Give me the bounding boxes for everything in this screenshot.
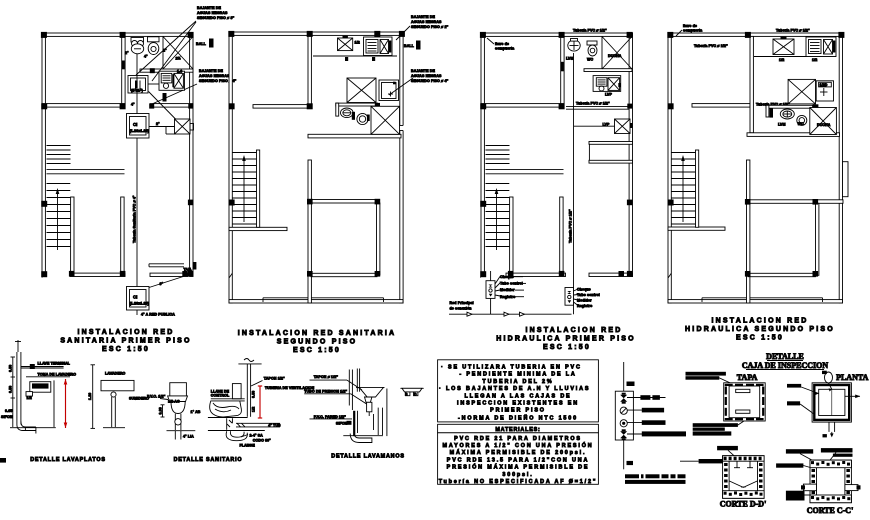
svg-text:CAJA DE INSPECCION: CAJA DE INSPECCION — [742, 361, 828, 370]
svg-text:1/2 AG: 1/2 AG — [168, 400, 180, 404]
corte cc left pipe — [801, 484, 817, 491]
wall mid horizontal plan4 — [692, 104, 750, 108]
front view sink lavamanos — [400, 388, 423, 396]
svg-text:compuerta: compuerta — [495, 47, 515, 51]
caja heading — [742, 352, 828, 370]
stairs wall plan4 — [696, 150, 699, 227]
red dim sanitario — [258, 386, 262, 418]
stairs landing lines plan3 — [486, 170, 564, 174]
toilet side view 1 sanitario — [168, 383, 188, 414]
svg-text:0.50: 0.50 — [252, 391, 256, 398]
wall top exterior plan2 — [229, 32, 403, 35]
wall room vertical plan4 — [816, 203, 819, 275]
wall bottom exterior plan4 — [668, 300, 843, 303]
wall right exterior plan4 — [839, 33, 842, 303]
svg-text:PVC RDE 13.5 PARA 1/2"CON UNA: PVC RDE 13.5 PARA 1/2"CON UNA — [447, 457, 589, 463]
svg-text:DETALLE LAVAMANOS: DETALLE LAVAMANOS — [331, 454, 405, 460]
pipe size labels plan1 — [125, 49, 181, 127]
wall stairwell vertical plan1 — [71, 197, 74, 273]
svg-text:Cheque: Cheque — [577, 288, 591, 292]
wc fixture plan3 — [587, 41, 597, 56]
svg-text:HIDRAULICA PRIMER PISO: HIDRAULICA PRIMER PISO — [496, 336, 636, 343]
sink unit LVP plan3 — [593, 76, 621, 97]
toilet fixture bath plan1 — [131, 38, 144, 54]
leader to mid wall plan1 — [152, 84, 197, 104]
column squares plan3 — [480, 32, 633, 277]
svg-text:BAJANTE DE: BAJANTE DE — [411, 69, 435, 73]
wall left exterior plan3 — [481, 33, 484, 277]
tuberia ventilacion label sanitario — [265, 386, 315, 390]
wall right exterior plan3 — [629, 33, 632, 277]
balcony inner line plan2 — [263, 298, 384, 302]
svg-text:DUCHA: DUCHA — [817, 123, 831, 127]
corte dd left leader — [680, 459, 734, 463]
svg-text:Tubería PVC ø 1/2": Tubería PVC ø 1/2" — [576, 101, 610, 105]
riser vertical line — [623, 362, 625, 469]
svg-text:2°: 2° — [156, 122, 160, 126]
svg-text:CORTE C-C': CORTE C-C' — [807, 506, 854, 515]
caja inspeccion CI-1 plan1 — [127, 114, 150, 139]
svg-text:1.20: 1.20 — [88, 393, 92, 400]
riser valve box — [615, 391, 633, 440]
kitchen stove X plan4 — [773, 37, 794, 55]
planta left leader bars — [787, 384, 801, 406]
svg-text:2½: 2½ — [176, 57, 181, 61]
svg-text:1° AB: 1° AB — [191, 410, 201, 414]
svg-text:B: B — [405, 392, 408, 396]
floor and dims lavamanos — [343, 389, 387, 437]
label sifon lavamanos — [336, 421, 352, 426]
svg-text:2°: 2° — [163, 49, 167, 53]
wall bottom plan1 segment A — [70, 273, 125, 276]
wall mid horizontal plan1 left — [42, 104, 125, 108]
caption detalle lavaplatos — [30, 457, 106, 463]
wall bottom exterior plan2 — [229, 300, 403, 303]
sifon X fixture plan3 — [603, 119, 633, 134]
toilet 2 tank sanitario — [232, 384, 241, 399]
svg-text:1.0: 1.0 — [177, 70, 182, 74]
svg-text:TUBO DE PRESION 1/2": TUBO DE PRESION 1/2" — [304, 390, 347, 394]
label tuberia top exterior plan4 — [776, 29, 810, 33]
svg-text:Red Principal: Red Principal — [450, 301, 474, 305]
corte cc top leaders — [800, 453, 836, 461]
svg-text:TAPON 1/2": TAPON 1/2" — [264, 377, 285, 381]
tapa label — [737, 373, 758, 382]
wall left exterior plan2 — [229, 32, 232, 303]
wall room vertical plan2 — [377, 203, 380, 275]
title plan2 — [238, 330, 397, 354]
svg-text:llave de: llave de — [683, 24, 697, 28]
side view basin lavaplatos — [101, 372, 134, 391]
notes box text — [439, 365, 590, 422]
svg-text:FLANGE: FLANGE — [240, 444, 256, 448]
planta inlet circle top — [822, 371, 833, 392]
corte dd box — [723, 456, 765, 499]
riser top tick — [627, 382, 635, 387]
svg-text:DUCHA: DUCHA — [608, 54, 622, 58]
svg-text:BALL: BALL — [404, 44, 415, 48]
label tuberia interior plan4 — [694, 44, 728, 48]
corte cc box — [810, 460, 851, 503]
valve circle slash — [620, 407, 627, 414]
svg-text:LVM: LVM — [566, 57, 574, 61]
svg-text:D: D — [414, 392, 417, 396]
svg-text:BALL: BALL — [196, 42, 207, 46]
wall stairwell vertical plan3 — [510, 197, 513, 273]
side view drain pipe lavaplatos — [103, 392, 149, 428]
tapa leader bars bottom — [693, 423, 738, 435]
small riser bar plan1 — [163, 93, 167, 102]
label bajante top plan2 — [411, 15, 449, 29]
lavadero basin lavaplatos — [26, 382, 51, 400]
wall hall horizontal plan4 — [748, 200, 843, 204]
wall interior vertical main plan2 — [308, 160, 311, 303]
pipe horizontal to sifon plan3 — [574, 125, 615, 127]
wall top exterior plan3 — [481, 33, 633, 36]
svg-text:BAJANTE DE: BAJANTE DE — [199, 69, 223, 73]
wall interior vertical main plan4 — [747, 160, 750, 303]
tapa leader line — [719, 378, 734, 385]
svg-text:ESC 1:50: ESC 1:50 — [543, 344, 591, 351]
svg-text:INSTALACION RED: INSTALACION RED — [77, 329, 174, 336]
stairs arrow plan3 — [495, 188, 499, 250]
svg-text:BAJANTE DE: BAJANTE DE — [411, 15, 435, 19]
wall end hatch plan3 — [480, 274, 483, 278]
svg-text:Tubería PVC ø 1/2": Tubería PVC ø 1/2" — [694, 44, 728, 48]
svg-text:CORTE D-D': CORTE D-D' — [720, 500, 767, 509]
svg-text:Cheque: Cheque — [500, 275, 514, 279]
corte cc top bars — [786, 448, 853, 457]
svg-text:TUBERIA DEL 2%: TUBERIA DEL 2% — [482, 379, 553, 385]
valve bowtie 1 — [620, 393, 627, 404]
svg-text:P.V.C. 1/2": P.V.C. 1/2" — [147, 395, 166, 399]
svg-text:compuerta: compuerta — [683, 29, 703, 33]
tapa box — [724, 383, 766, 421]
svg-text:DETALLE: DETALLE — [766, 352, 804, 361]
toma de lavadero leader lavaplatos — [26, 373, 76, 377]
ducha X corner plan3 — [602, 37, 632, 70]
wall bottom plan1 segment B — [150, 273, 188, 276]
planta left arrows — [800, 387, 819, 414]
svg-text:2-4° SA: 2-4° SA — [250, 434, 264, 438]
svg-text:Tubería NO ESPECIFICADA AF Ø=1: Tubería NO ESPECIFICADA AF Ø=1/2" — [439, 479, 598, 485]
wall room horizontal lower plan4 — [748, 273, 816, 276]
label red principal plan3 — [450, 301, 474, 311]
kitchen sink unit plan2 — [364, 37, 393, 56]
niche right wall plan4 — [843, 162, 849, 197]
caption detalle lavamanos — [331, 454, 405, 460]
svg-text:PRIMER PISO: PRIMER PISO — [490, 408, 546, 414]
basin bowl lavamanos — [356, 387, 385, 402]
valve bowtie 2 — [620, 429, 627, 440]
svg-text:AGUAS NEGRAS: AGUAS NEGRAS — [197, 11, 228, 15]
svg-text:LAVADERO: LAVADERO — [105, 372, 126, 376]
wall landing horizontal plan4 — [668, 227, 725, 230]
label TAN plan1 — [184, 262, 197, 272]
wall interior vertical bath plan1 — [122, 36, 125, 103]
wall bath divider horizontal plan1 — [140, 69, 193, 72]
elbow bottom lavaplatos — [17, 422, 36, 434]
svg-text:· LOS BAJANTES DE A.N Y LLUVIA: · LOS BAJANTES DE A.N Y LLUVIAS — [439, 386, 590, 392]
svg-text:Tubería PVC ø 1/2": Tubería PVC ø 1/2" — [573, 29, 607, 33]
svg-text:WC: WC — [587, 58, 593, 62]
svg-text:-NORMA DE DIEÑO NTC 1500: -NORMA DE DIEÑO NTC 1500 — [458, 415, 578, 422]
kitchen stove X plan2 — [338, 36, 353, 51]
s-trap sanitario — [226, 431, 271, 447]
wall mid horizontal plan2 — [253, 105, 311, 109]
counter and floor lavaplatos — [10, 380, 56, 427]
vertical water pipe plan3 — [573, 53, 575, 277]
label bajante mid plan1 — [199, 69, 237, 83]
wall end hatch plan1 — [42, 274, 45, 278]
wall bath divider plan3 — [584, 69, 632, 72]
drain pipe lavamanos — [350, 411, 372, 443]
svg-text:SIFON: SIFON — [336, 421, 348, 425]
svg-text:ESC 1:50: ESC 1:50 — [293, 347, 341, 354]
stairs landing lines plan1 — [47, 170, 125, 174]
svg-text:1/2: 1/2 — [812, 58, 817, 62]
side view dim line lavaplatos — [88, 365, 95, 429]
svg-text:de conexión: de conexión — [450, 307, 472, 311]
wall room vertical plan3 — [560, 197, 563, 273]
riser leader 2 — [627, 408, 664, 413]
svg-text:Tubería PVC ø 1/2": Tubería PVC ø 1/2" — [776, 29, 810, 33]
svg-text:INSTALACION RED: INSTALACION RED — [711, 318, 808, 325]
stairs treads plan2 — [232, 153, 256, 225]
column squares plan1 — [41, 32, 194, 277]
manifold labels 2 plan3 — [577, 288, 600, 309]
vanity counter plan2 — [336, 103, 378, 116]
svg-text:SEGUNDO PISO ø 2": SEGUNDO PISO ø 2" — [411, 25, 449, 29]
title plan1 — [60, 329, 191, 353]
wall thick bath bottom plan4 — [747, 133, 840, 137]
label tuberia bath plan4 — [756, 103, 790, 107]
materiales box — [438, 433, 599, 485]
sifon X fixture plan1 — [175, 119, 194, 134]
llave control label sanitario — [211, 390, 230, 398]
wall hall horizontal plan2 — [311, 200, 378, 204]
wall mid horizontal plan1 right — [150, 104, 193, 108]
label pvc pared lavamanos — [310, 415, 353, 419]
svg-text:3°: 3° — [160, 282, 164, 286]
svg-text:4°: 4° — [131, 103, 135, 107]
svg-text:MAYORES A 1/2" CON UNA PRESIÓN: MAYORES A 1/2" CON UNA PRESIÓN — [442, 441, 593, 449]
stray label bottom-left — [0, 415, 13, 463]
svg-text:LLEGAN A LAS CAJAS DE: LLEGAN A LAS CAJAS DE — [464, 393, 571, 399]
svg-text:Tubería PVC ø 1/2": Tubería PVC ø 1/2" — [569, 209, 573, 243]
svg-text:Tubo control: Tubo control — [577, 293, 600, 297]
svg-text:4° LIA: 4° LIA — [183, 435, 194, 439]
label llave de compuerta plan4 — [676, 24, 703, 36]
closet lines bottom right plan3 — [589, 142, 633, 164]
planta right arrow — [845, 395, 860, 399]
svg-text:0.50: 0.50 — [9, 365, 13, 372]
svg-text:TOMA DE LAVADERO: TOMA DE LAVADERO — [38, 373, 77, 377]
tuberia mid label plan3 — [566, 101, 629, 109]
wall interior vertical top plan4 — [750, 36, 753, 132]
svg-text:4°: 4° — [144, 55, 148, 59]
caption detalle sanitario — [174, 457, 243, 463]
bath tank box plan4 — [816, 81, 833, 101]
stairs arrow plan2 — [242, 155, 246, 222]
stairs lower treads plan1 — [47, 184, 71, 247]
wall interior vertical bath plan3 — [561, 36, 564, 103]
svg-text:0.50: 0.50 — [9, 386, 13, 393]
kitchen labels plan2 — [345, 41, 375, 62]
svg-text:- PENDIENTE MINIMA DE LA: - PENDIENTE MINIMA DE LA — [459, 372, 576, 378]
svg-text:DETALLE SANITARIO: DETALLE SANITARIO — [174, 457, 243, 463]
corte dd top bar — [717, 446, 738, 456]
svg-text:SEGUNDO PISO ø 4": SEGUNDO PISO ø 4" — [411, 79, 449, 83]
faucet lavamanos — [367, 402, 372, 416]
svg-text:ESC 1:50: ESC 1:50 — [102, 346, 150, 353]
balcony inner line plan4 — [702, 298, 823, 302]
bath shower X plan2 — [347, 78, 376, 103]
kitchen counter line plan4 — [754, 56, 836, 58]
planta center line — [831, 389, 833, 415]
svg-text:CONTROL: CONTROL — [211, 394, 230, 398]
lavamanos fixture plan3 — [568, 39, 580, 52]
svg-text:PVC RDE 21 PARA DIAMETROS: PVC RDE 21 PARA DIAMETROS — [454, 436, 582, 442]
planta label — [836, 373, 869, 382]
outlet to public network plan1 — [137, 310, 175, 317]
horizontal pipe CI to sifon plan1 — [149, 127, 175, 135]
column at counter end plan4 — [813, 104, 819, 109]
svg-text:AGUAS NEGRAS: AGUAS NEGRAS — [411, 20, 442, 24]
column squares plan2 — [228, 31, 405, 277]
svg-text:LVM: LVM — [778, 123, 786, 127]
manifold labels 1 plan3 — [500, 275, 526, 299]
vertical sanitary pipe plan1 — [136, 54, 138, 287]
kitchen labels plan4 — [779, 58, 817, 62]
bath lavamanos oval plan4 — [780, 109, 794, 119]
label tapon lavamanos — [310, 375, 363, 390]
fixture labels bath plan4 — [778, 122, 831, 127]
planta box — [812, 383, 851, 422]
bath wc circle plan4 — [797, 115, 807, 125]
svg-text:TAPA: TAPA — [737, 373, 758, 382]
bath tank box plan2 — [379, 80, 399, 101]
label bajante top plan1 — [197, 6, 235, 20]
label tuberia top plan3 — [573, 29, 607, 33]
wall lines lavamanos — [349, 369, 359, 411]
label BALL plan1 — [196, 39, 214, 48]
svg-text:(1.20x1.20): (1.20x1.20) — [130, 302, 150, 306]
kitchen counter sink and stove plan1 — [159, 70, 185, 91]
planta outlet pipe bottom — [823, 422, 835, 437]
materiales header box — [438, 424, 599, 433]
corte cc left leader — [776, 463, 812, 468]
svg-text:HIDRAULICA SEGUNDO PISO: HIDRAULICA SEGUNDO PISO — [685, 326, 835, 333]
window break right wall plan2 — [399, 126, 405, 131]
label llave de compuerta plan3 — [487, 38, 515, 51]
riser bottom striped bar 2 — [625, 480, 686, 484]
stairs arrow plan4 — [681, 155, 685, 222]
svg-text:TAN.: TAN. — [184, 268, 193, 272]
main supply pipe plan3 — [449, 312, 572, 316]
svg-text:AGUAS NEGRAS: AGUAS NEGRAS — [199, 74, 230, 78]
wall right exterior plan1 — [190, 33, 193, 277]
corte cc black label block — [786, 491, 810, 501]
svg-text:BAJANTE DE: BAJANTE DE — [197, 6, 221, 10]
corte cc caption — [807, 506, 854, 515]
red dimension lavaplatos — [64, 379, 68, 428]
valve circle dot — [620, 420, 627, 427]
stairs wall plan2 — [257, 150, 260, 227]
wall top exterior plan1 — [42, 33, 193, 36]
svg-text:MATERIALES:: MATERIALES: — [495, 427, 540, 433]
wall end hatch left plan4 — [668, 273, 671, 278]
svg-text:SIFON: SIFON — [1, 415, 13, 419]
llave terminal leader lavaplatos — [21, 362, 71, 370]
svg-text:llave de: llave de — [495, 42, 509, 46]
kitchen sink unit plan4 — [806, 37, 836, 57]
wall landing horizontal plan2 — [229, 227, 287, 230]
left dim ticks lavaplatos — [5, 357, 15, 427]
wall room horizontal lower plan2 — [311, 273, 377, 276]
svg-text:AGUAS NEGRAS: AGUAS NEGRAS — [411, 74, 442, 78]
caja box A lavadero plan1 — [128, 76, 148, 94]
wall bottom plan3 segment B — [589, 273, 633, 276]
dim 030 sanitario — [158, 405, 164, 417]
fixture labels bath plan3 — [566, 54, 622, 62]
vent pipe sanitario 2 — [238, 359, 261, 417]
column squares plan4 — [667, 32, 844, 277]
stairs direction arrow plan1 — [56, 188, 60, 250]
wall left exterior plan1 — [42, 33, 45, 277]
bath ducha X plan2 — [371, 106, 400, 134]
bath wc circle plan2 — [357, 113, 370, 124]
svg-text:P.V.C. PARED 1/2": P.V.C. PARED 1/2" — [314, 415, 346, 419]
wall bottom plan3 segment A — [506, 273, 566, 276]
shower X corner plan1 — [163, 37, 193, 70]
svg-text:CI: CI — [133, 295, 137, 300]
svg-text:LVP: LVP — [605, 93, 613, 97]
label bajante mid plan2 — [411, 69, 449, 83]
svg-text:MÁXIMA PERMISIBLE DE 200psi.: MÁXIMA PERMISIBLE DE 200psi. — [450, 449, 587, 456]
title plan3 — [496, 327, 636, 351]
svg-text:(1.20x1.20): (1.20x1.20) — [130, 129, 150, 133]
vent pipe vertical lavaplatos — [15, 340, 21, 425]
svg-text:INSTALACION RED SANITARIA: INSTALACION RED SANITARIA — [238, 330, 397, 337]
stairs upper treads plan1 — [47, 146, 71, 164]
leader and 3 label to CI-2 plan1 — [149, 275, 190, 288]
column at counter end plan2 — [375, 103, 380, 108]
leader pvc label sanitario — [147, 395, 180, 404]
wall left exterior plan4 — [668, 33, 671, 303]
valve manifold 1 plan3 — [486, 271, 500, 314]
svg-text:LLAVE TERMINAL: LLAVE TERMINAL — [38, 362, 71, 366]
materiales text — [439, 436, 598, 485]
riser leader 3 — [627, 420, 666, 425]
bath ducha X plan4 — [810, 108, 837, 135]
svg-text:1/2: 1/2 — [252, 407, 256, 412]
svg-text:PLANTA: PLANTA — [836, 373, 869, 382]
tapa leader bars top — [686, 372, 726, 380]
label BALL plan2 — [404, 41, 421, 50]
svg-text:Medidor: Medidor — [500, 288, 515, 292]
wall end hatch left plan2 — [229, 273, 232, 278]
rotated pipe label plan1 — [133, 195, 137, 243]
leader to bath wall plan2 — [389, 78, 413, 95]
svg-text:· SE UTILIZARA TUBERIA EN PVC: · SE UTILIZARA TUBERIA EN PVC — [441, 365, 582, 371]
svg-text:SEGUNDO PISO: SEGUNDO PISO — [277, 339, 357, 346]
svg-text:INSPECCION EXISTENTES EN: INSPECCION EXISTENTES EN — [457, 401, 579, 407]
svg-text:INSTALACION RED: INSTALACION RED — [525, 327, 622, 334]
riser leader 1 — [627, 395, 666, 400]
label tubo presion lavamanos — [304, 390, 366, 405]
svg-text:Registro: Registro — [577, 304, 593, 308]
